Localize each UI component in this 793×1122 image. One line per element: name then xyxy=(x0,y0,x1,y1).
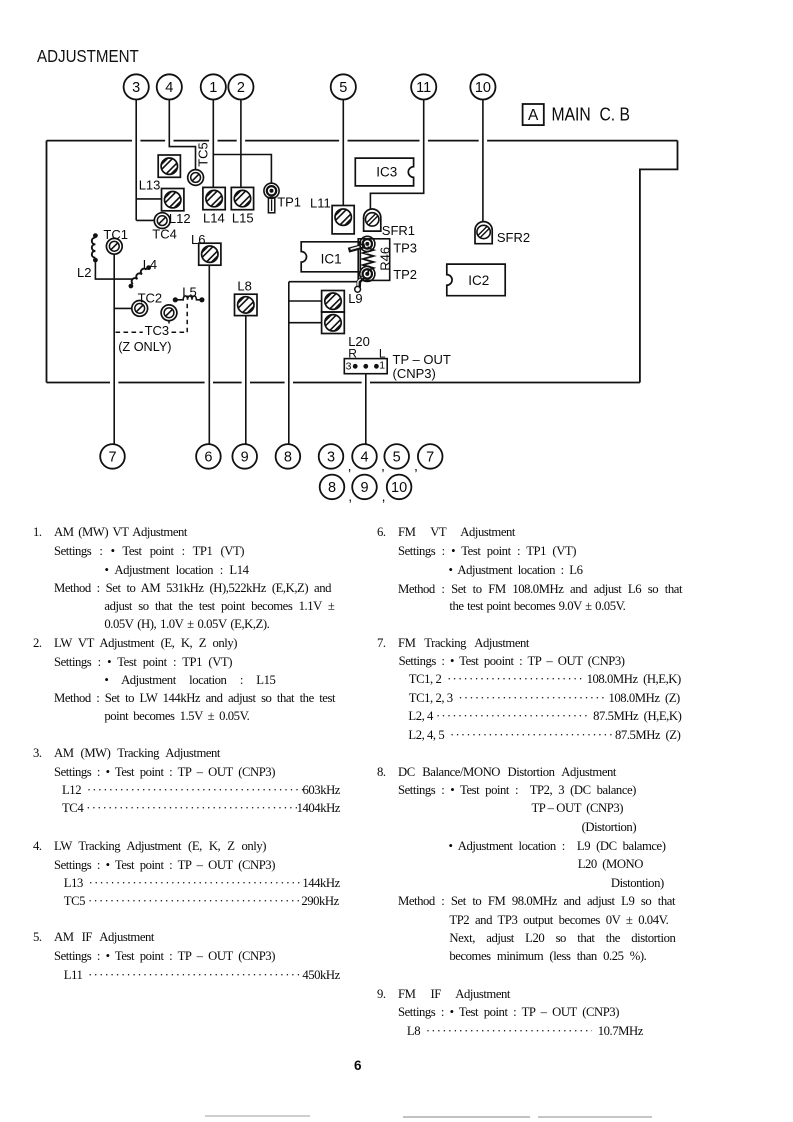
wire from L6 down to circle 6 xyxy=(208,265,210,444)
wire from L9/L20/TP2 block down to circle 8 xyxy=(289,282,358,444)
svg-text:MAIN C. B: MAIN C. B xyxy=(552,104,631,124)
marker circle 10 (bottom10) xyxy=(387,475,412,500)
svg-text:L13: L13 xyxy=(139,177,161,192)
wire from circle 11 to SFR1 xyxy=(370,100,423,209)
board outline MAIN C.B xyxy=(47,141,678,383)
svg-text:TC4: TC4 xyxy=(152,227,177,242)
marker circle 5 (top) xyxy=(331,74,356,99)
svg-text:L8: L8 xyxy=(237,278,251,293)
marker circle 8 (bottom8) xyxy=(320,475,345,500)
svg-text:IC2: IC2 xyxy=(468,273,489,288)
wire from circle 10 to SFR2 xyxy=(482,100,484,222)
test point TP2 xyxy=(355,266,375,292)
inductor L2 (coil) xyxy=(92,233,98,262)
svg-text:A: A xyxy=(528,107,539,124)
inductor L4 (coil) xyxy=(127,263,152,289)
filter SFR1 xyxy=(364,209,381,231)
svg-text:TC3: TC3 xyxy=(145,323,170,338)
trimmer TC4 xyxy=(154,213,170,229)
wire branch to TP1 xyxy=(213,155,271,184)
svg-text:3: 3 xyxy=(132,80,140,96)
svg-text:9: 9 xyxy=(241,450,249,466)
label TC3 xyxy=(143,323,172,338)
svg-text:9: 9 xyxy=(360,480,368,496)
wire L2 to L4 horizontal xyxy=(95,260,133,279)
svg-text:11: 11 xyxy=(416,80,431,96)
marker circle 9 (bottom2) xyxy=(232,444,257,469)
marker circle 5 (bottom6) xyxy=(384,444,409,469)
marker circle 1 (top) xyxy=(201,74,226,99)
test point TP1 xyxy=(264,183,279,213)
svg-text:,: , xyxy=(381,458,385,474)
svg-text:1: 1 xyxy=(209,80,217,96)
svg-text:,: , xyxy=(348,458,352,474)
svg-text:4: 4 xyxy=(360,450,368,466)
svg-text:SFR2: SFR2 xyxy=(497,230,530,245)
wire from circle 3 to L12 and TC4 xyxy=(136,100,161,221)
svg-text:TC2: TC2 xyxy=(138,291,163,306)
IC U2 (IC2) xyxy=(447,264,505,296)
svg-text:L12: L12 xyxy=(169,211,191,226)
svg-text:IC3: IC3 xyxy=(376,165,397,180)
svg-text:(Z ONLY): (Z ONLY) xyxy=(118,340,171,354)
svg-text:TP3: TP3 xyxy=(393,240,417,255)
coil L9 (box) xyxy=(320,288,346,314)
coil L6 (box) xyxy=(197,241,223,267)
svg-text:,: , xyxy=(382,488,386,504)
coil L15 (box) xyxy=(230,186,256,212)
svg-text:2: 2 xyxy=(237,80,245,96)
svg-text:7: 7 xyxy=(108,450,116,466)
wire from circle 1 to L14 xyxy=(212,100,214,188)
coil L12 (box) xyxy=(160,187,186,213)
trimmer TC5 xyxy=(188,170,204,186)
svg-text:5: 5 xyxy=(393,450,401,466)
svg-text:L4: L4 xyxy=(143,257,157,272)
coil L11 (box) xyxy=(330,204,356,234)
svg-text:L5: L5 xyxy=(182,284,196,299)
marker circle 7 (bottom7) xyxy=(418,444,443,469)
coil L13 (box) xyxy=(156,153,182,179)
faint scan line bottom 3 xyxy=(538,1116,652,1118)
svg-text:10: 10 xyxy=(475,80,491,96)
wire from circle 5 to L11 xyxy=(342,100,344,206)
marker circle 8 (bottom3) xyxy=(276,444,301,469)
svg-text:,: , xyxy=(414,458,418,474)
svg-text:3: 3 xyxy=(346,360,352,372)
adjustment instruction text xyxy=(33,525,42,540)
svg-text:7: 7 xyxy=(426,450,434,466)
coil L8 (box) xyxy=(233,292,259,318)
page number 6 xyxy=(354,1058,362,1073)
faint scan line bottom 2 xyxy=(403,1116,530,1118)
svg-text:L14: L14 xyxy=(203,211,225,226)
filter SFR2 xyxy=(475,222,492,244)
svg-text:4: 4 xyxy=(165,80,173,96)
connector CNP3 TP-OUT xyxy=(344,359,387,374)
svg-text:6: 6 xyxy=(204,450,212,466)
marker circle 10 (top) xyxy=(470,74,495,99)
svg-text:SFR1: SFR1 xyxy=(382,223,415,238)
faint scan line bottom 1 xyxy=(205,1115,310,1117)
wire from L8 down to circle 9 xyxy=(245,316,247,444)
svg-text:(CNP3): (CNP3) xyxy=(393,366,436,381)
wire from TP-OUT connector down to marker 4 xyxy=(365,374,367,444)
coil L20 (box) xyxy=(320,310,346,336)
dashed Z-only outline around TC3/L5 xyxy=(116,302,188,333)
svg-text:IC1: IC1 xyxy=(321,252,342,267)
marker circle 4 (bottom5) xyxy=(352,444,377,469)
svg-text:8: 8 xyxy=(328,480,336,496)
marker circle 11 (top) xyxy=(411,74,436,99)
svg-text:R46: R46 xyxy=(378,247,393,271)
marker circle 6 (bottom1) xyxy=(196,444,221,469)
board name box A xyxy=(523,104,544,125)
trimmer TC1 xyxy=(106,238,122,254)
svg-text:10: 10 xyxy=(391,480,407,496)
wire branch to TC2 xyxy=(114,307,131,309)
wire from circle 4 to TC5 xyxy=(169,100,195,170)
marker circle 9 (bottom9) xyxy=(352,475,377,500)
marker circle 4 (top) xyxy=(157,74,182,99)
svg-text:TC1: TC1 xyxy=(103,227,128,242)
svg-text:L6: L6 xyxy=(191,232,205,247)
marker circle 2 (top) xyxy=(228,74,253,99)
trimmer TC2 xyxy=(132,301,148,317)
svg-text:,: , xyxy=(348,488,352,504)
resistor R46 block xyxy=(358,239,392,281)
svg-text:3: 3 xyxy=(327,450,335,466)
svg-text:L11: L11 xyxy=(310,195,331,210)
inductor L5 (coil) xyxy=(173,296,205,303)
svg-text:1: 1 xyxy=(379,359,385,371)
svg-text:TC5: TC5 xyxy=(196,142,211,167)
svg-text:L2: L2 xyxy=(77,265,91,280)
svg-text:L9: L9 xyxy=(348,291,362,306)
coil L14 (box) xyxy=(201,186,227,212)
wire from TC1 down to circle 7 xyxy=(113,255,115,444)
marker circle 7 (bottom0) xyxy=(100,444,125,469)
svg-text:L: L xyxy=(379,347,386,361)
IC U3 (IC3) xyxy=(355,158,413,186)
svg-text:TP1: TP1 xyxy=(277,195,301,210)
marker circle 3 (bottom4) xyxy=(319,444,344,469)
trimmer TC3 xyxy=(161,305,177,321)
svg-text:5: 5 xyxy=(339,80,347,96)
svg-text:R: R xyxy=(348,347,357,361)
wire from circle 2 to L15 xyxy=(240,100,242,188)
IC U1 (IC1) xyxy=(301,242,360,272)
svg-text:TP – OUT: TP – OUT xyxy=(393,352,451,367)
svg-text:8: 8 xyxy=(284,450,292,466)
svg-text:TP2: TP2 xyxy=(393,267,417,282)
marker circle 3 (top) xyxy=(124,74,149,99)
svg-text:L15: L15 xyxy=(232,211,254,226)
test point TP3 xyxy=(349,236,375,251)
page title xyxy=(37,46,139,67)
